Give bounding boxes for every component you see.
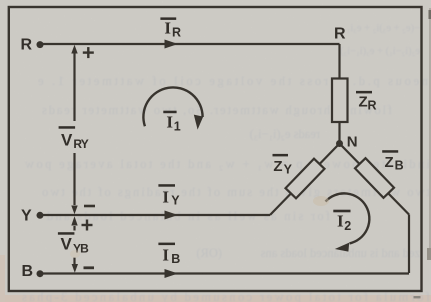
label VRY <box>59 126 89 151</box>
arrowhead VYB down <box>72 264 78 273</box>
arrowhead VYB up <box>71 216 77 225</box>
wire Y phase horizontal <box>40 214 270 216</box>
arrowhead VRY down <box>71 206 77 215</box>
wire node N to ZB diagonal <box>340 144 410 215</box>
node Y <box>37 212 44 219</box>
node N <box>336 140 343 147</box>
label ZR <box>356 91 377 113</box>
plus sign VRY <box>83 47 94 58</box>
loop current I2 arc <box>326 193 370 243</box>
wire node N to ZY diagonal <box>270 144 340 216</box>
wire VYB arrow line upper <box>73 226 75 231</box>
wire B phase horizontal <box>40 272 409 274</box>
wire R phase vertical drop to ZR <box>338 44 340 80</box>
label ZY <box>273 154 293 177</box>
plus sign VYB <box>82 220 93 231</box>
label I2 <box>333 210 351 233</box>
minus sign VYB <box>84 266 95 269</box>
wire VRY arrow line lower <box>73 153 75 205</box>
loop current I1 arrowhead <box>194 115 203 130</box>
impedance ZB <box>355 158 394 198</box>
wire ZR to node N <box>338 121 340 144</box>
wire ZB corner vertical <box>408 215 410 274</box>
scan grain overlay <box>0 0 1 1</box>
label IB <box>158 243 180 266</box>
arrowhead VRY up <box>71 45 77 54</box>
arrow IR <box>165 40 179 49</box>
impedance ZR <box>332 79 348 123</box>
label ZB <box>382 150 403 172</box>
impedance ZY <box>286 159 325 199</box>
wire VYB arrow line lower <box>73 258 75 267</box>
label IR <box>160 17 181 39</box>
loop current I2 arrowhead <box>335 243 349 252</box>
node B <box>37 270 44 277</box>
arrow IY <box>165 211 179 220</box>
label VYB <box>58 232 89 255</box>
wire R phase horizontal <box>40 43 340 45</box>
label I1 <box>163 111 181 134</box>
wire VRY arrow line upper <box>73 52 75 121</box>
node R <box>37 41 44 48</box>
minus sign VRY <box>84 205 95 208</box>
loop current I1 arc <box>143 87 202 126</box>
arrow IB <box>165 269 179 278</box>
label IY <box>158 184 180 207</box>
